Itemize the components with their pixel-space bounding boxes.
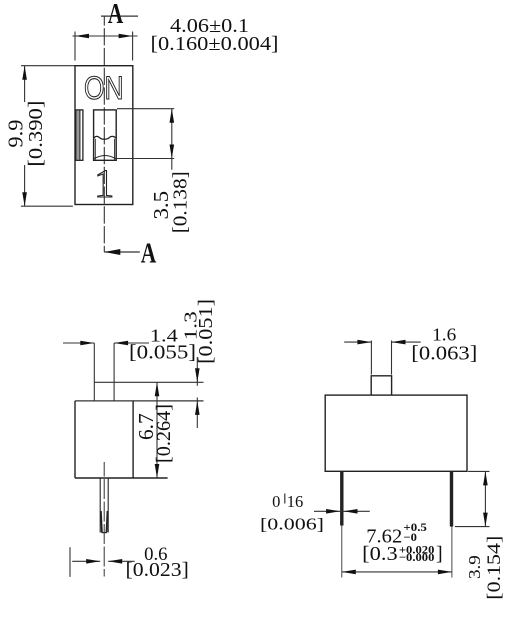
svg-text:16: 16 <box>287 492 304 511</box>
svg-text:[0.264]: [0.264] <box>153 404 175 463</box>
svg-text:]: ] <box>436 543 443 565</box>
svg-text:[0.023]: [0.023] <box>126 560 189 581</box>
svg-text:[0.063]: [0.063] <box>411 343 477 365</box>
svg-text:[0.160±0.004]: [0.160±0.004] <box>151 33 279 55</box>
svg-text:A: A <box>141 238 157 270</box>
svg-text:−0: −0 <box>403 532 417 544</box>
svg-text:9.9: 9.9 <box>4 120 28 148</box>
svg-text:3.9: 3.9 <box>465 555 484 579</box>
svg-text:1.6: 1.6 <box>432 325 456 345</box>
svg-text:0: 0 <box>272 492 280 511</box>
svg-text:ON: ON <box>84 70 124 106</box>
svg-text:A: A <box>108 0 124 30</box>
svg-text:[0.154]: [0.154] <box>484 536 505 600</box>
svg-text:[0.390]: [0.390] <box>25 101 47 167</box>
svg-text:[0.138]: [0.138] <box>170 171 192 233</box>
svg-text:[0.051]: [0.051] <box>196 299 217 364</box>
svg-text:−0.000: −0.000 <box>399 552 435 564</box>
svg-text:[0.006]: [0.006] <box>260 515 324 534</box>
svg-text:1: 1 <box>94 161 114 206</box>
svg-text:[0.055]: [0.055] <box>129 343 196 364</box>
svg-text:[0.3: [0.3 <box>362 543 398 565</box>
